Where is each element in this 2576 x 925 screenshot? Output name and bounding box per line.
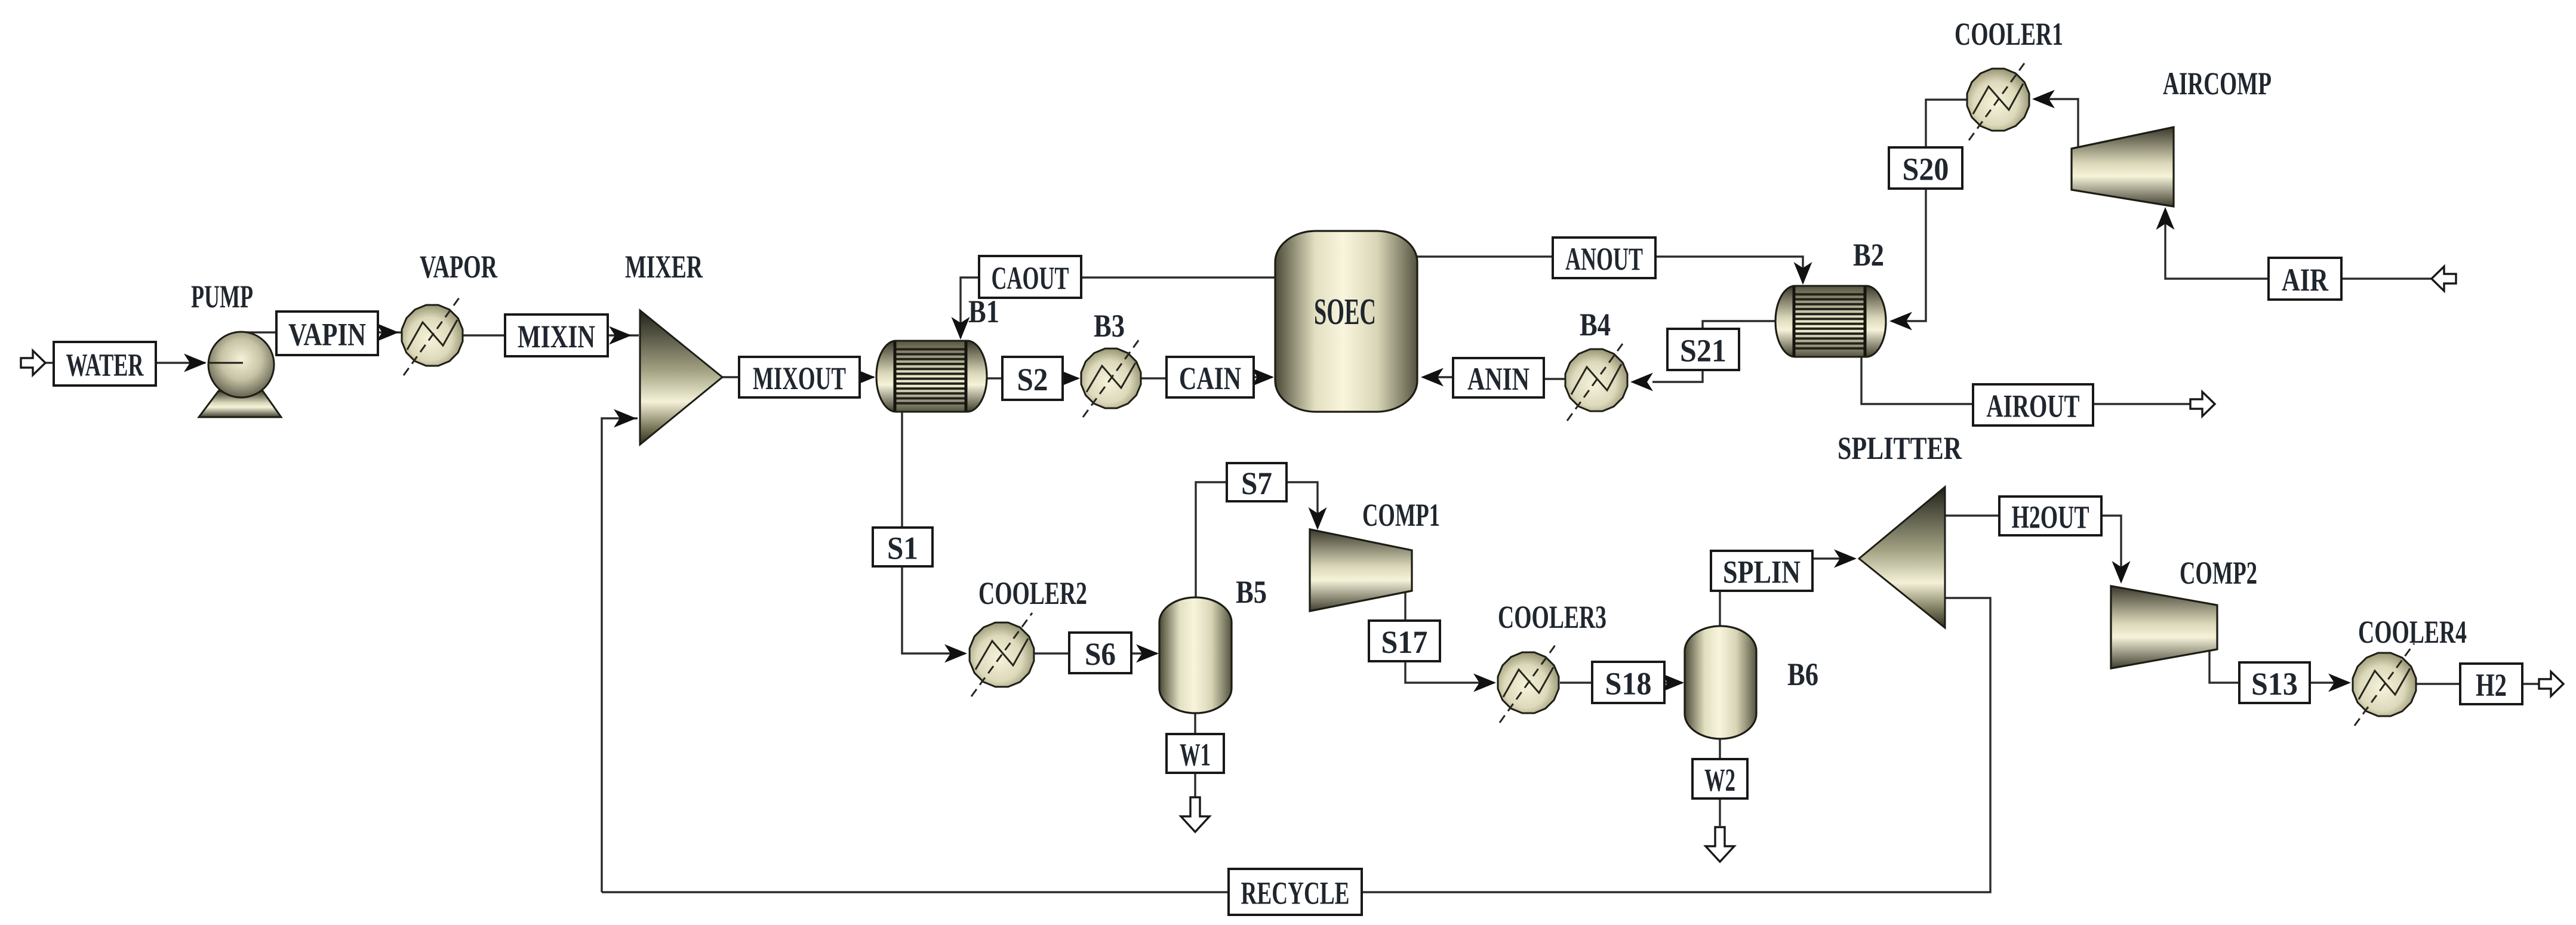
svg-text:S17: S17 [1381,624,1428,660]
stream label box ANIN [1453,358,1544,397]
wire WATER to PUMP [156,362,205,363]
svg-text:ANIN: ANIN [1467,361,1529,397]
svg-text:S20: S20 [1903,152,1949,187]
stream label box S7 [1227,463,1287,501]
svg-text:VAPIN: VAPIN [288,317,366,353]
stream label box WATER [54,342,156,386]
svg-text:COOLER1: COOLER1 [1955,16,2063,52]
stream label box S13 [2239,662,2310,703]
wire AIR to AIRCOMP [2165,209,2269,279]
arrowhead into COOLER3 [1473,674,1496,692]
svg-text:ANOUT: ANOUT [1565,241,1643,277]
svg-text:COOLER2: COOLER2 [978,575,1087,611]
wire CAOUT to B1 top [961,277,979,338]
stream label box SPLIN [1711,551,1812,591]
stream label box S2 [1002,357,1063,400]
reactor SOEC (vessel) [1275,231,1417,412]
pump PUMP base [199,391,281,417]
wire B1 bottom to S1 [901,412,903,528]
stream label box MIXOUT [739,357,860,397]
wire B1 to S2 [987,377,1002,379]
wire ANIN to SOEC [1423,376,1453,378]
svg-text:B3: B3 [1094,308,1125,344]
wire S13 to COOLER4 [2310,682,2349,683]
wire B2 to S21 [1703,321,1775,329]
stream label box AIR [2269,258,2341,300]
heater VAPOR (heater/cooler circle) [402,295,463,375]
stream label box MIXIN [505,314,608,356]
arrowhead into COOLER4 [2328,674,2351,692]
svg-text:B5: B5 [1236,574,1267,610]
stream label box CAIN [1167,357,1254,397]
wire H2OUT to COMP2 [2101,516,2121,581]
wire B5 bottom to W1 [1194,713,1196,734]
svg-text:B2: B2 [1853,237,1884,273]
stream label box ANOUT [1553,238,1655,278]
svg-text:W1: W1 [1180,737,1211,773]
wire B3 to CAIN [1141,377,1167,379]
wire AIROUT to product arrow [2093,403,2190,405]
wire ANOUT to B2 top [1655,257,1803,283]
arrowhead into MIXER inlet1 [609,326,632,345]
wire RECYCLE to riser [602,891,1229,893]
stream label box S1 [873,528,932,566]
wire S1 to COOLER2 [902,566,965,653]
splitter SPLITTER triangle [1859,487,1945,628]
arrowhead into B2 right [1889,312,1912,331]
wire COMP2 to S13 [2209,649,2239,683]
wire AIRCOMP to COOLER1 [2035,99,2078,149]
stream label box VAPIN [276,312,378,355]
wire B5 top to S7 [1196,482,1227,597]
svg-text:SOEC: SOEC [1314,292,1376,332]
svg-text:COOLER3: COOLER3 [1498,599,1606,635]
arrowhead into COOLER2 [944,645,967,663]
wire SOEC to ANOUT [1417,255,1553,257]
stream label box H2OUT [1999,497,2101,535]
open arrow product H2 [2539,672,2563,696]
wire RECYCLE riser to MIXER [602,418,638,892]
flash drum B6 (vessel) [1685,626,1756,739]
compressor COMP1 (compressor) [1310,529,1412,611]
svg-text:S6: S6 [1085,636,1116,672]
wire W2 to waste arrow [1719,798,1721,826]
svg-text:S13: S13 [2251,666,2298,702]
wire MIXOUT to B1 [860,376,874,378]
svg-text:COMP2: COMP2 [2180,555,2257,591]
stream label box S18 [1592,662,1664,703]
cooler COOLER1 (heater/cooler circle) [1967,59,2029,140]
svg-text:H2OUT: H2OUT [2012,499,2089,535]
stream label box CAOUT [979,256,1081,298]
svg-text:W2: W2 [1704,762,1735,798]
wire S20 to B2 right [1892,189,1926,321]
open arrow feed AIR (points left) [2432,267,2456,291]
svg-text:MIXIN: MIXIN [518,319,595,354]
svg-text:SPLITTER: SPLITTER [1838,430,1962,466]
heat exchanger B2 (shell-and-tube heat exchanger) [1775,286,1886,357]
arrowhead into COMP1 [1309,507,1327,530]
wire SOEC to CAOUT [1081,276,1275,278]
svg-text:SPLIN: SPLIN [1723,554,1801,590]
svg-text:B4: B4 [1580,307,1611,343]
arrowhead into COOLER1 [2032,90,2055,109]
svg-text:COMP1: COMP1 [1362,497,1440,533]
wire S7 to COMP1 [1287,482,1318,528]
wire S2 to B3 [1063,377,1078,379]
svg-text:S18: S18 [1605,666,1652,702]
wire WATER feed to WATER box [45,362,54,363]
mixer MIXER triangle [640,310,722,445]
svg-text:CAOUT: CAOUT [992,260,1069,296]
wire SPLITTER to RECYCLE [1362,598,1990,892]
wire PUMP to VAPIN [244,331,276,333]
compressor AIRCOMP (compressor) [2072,127,2174,206]
arrowhead into PUMP [184,354,207,372]
wire S17 to COOLER3 [1405,661,1494,683]
svg-text:AIROUT: AIROUT [1987,388,2080,424]
arrowhead into B4 [1630,373,1653,391]
flash drum B5 (vessel) [1159,597,1232,713]
open arrow feed WATER [21,351,45,375]
wire PUMP internal [209,362,243,363]
wire S18 to B6 [1664,682,1682,683]
svg-text:COOLER4: COOLER4 [2358,614,2467,650]
wire AIR arrow to AIR box [2341,277,2432,279]
arrowhead into B1 top [952,317,970,340]
cooler COOLER2 (heater/cooler circle) [970,613,1034,696]
arrowhead into B1 left [852,368,875,387]
stream label box W1 [1167,734,1224,773]
wire COMP1 to S17 [1404,591,1406,621]
stream label box S21 [1667,329,1739,370]
wire H2 to product arrow [2522,683,2539,684]
arrowhead into B5 [1136,645,1159,663]
open arrow waste W1 (down) [1181,797,1209,832]
svg-text:VAPOR: VAPOR [420,249,498,285]
wire B6 top to SPLIN [1719,591,1721,626]
wire B2 bottom to AIROUT [1861,357,1973,404]
wire CAIN to SOEC [1254,376,1272,378]
wire COOLER4 to H2 [2417,683,2460,684]
wire VAPOR to MIXIN [463,334,505,336]
svg-text:AIR: AIR [2282,262,2329,298]
stream label box S17 [1369,621,1440,661]
svg-text:S21: S21 [1680,333,1726,369]
arrowhead into SOEC cathode [1251,368,1274,387]
wire VAPIN to VAPOR [378,331,402,333]
arrowhead into SOEC anode [1421,368,1444,387]
stream label box H2 [2460,664,2522,704]
arrowhead into AIRCOMP [2156,207,2175,230]
svg-text:B6: B6 [1787,656,1818,692]
svg-text:AIRCOMP: AIRCOMP [2163,66,2272,101]
svg-text:WATER: WATER [66,347,144,383]
wire B4 to ANIN [1544,378,1565,380]
wire MIXIN to MIXER [608,334,639,336]
wire COOLER2 to S6 [1035,652,1069,654]
wire COOLER3 to S18 [1560,682,1592,683]
arrowhead into COMP2 [2112,561,2131,584]
wire COOLER1 to S20 [1926,100,1967,147]
heat exchanger B1 (shell-and-tube heat exchanger) [876,341,987,412]
svg-text:H2: H2 [2476,667,2507,703]
svg-text:MIXER: MIXER [625,249,703,285]
wire S6 to B5 [1131,652,1157,654]
svg-text:MIXOUT: MIXOUT [753,360,846,396]
stream label box S6 [1069,633,1131,673]
heater B4 (heater/cooler circle) [1565,340,1627,421]
open arrow product AIROUT [2190,392,2215,417]
svg-text:S7: S7 [1241,465,1272,501]
arrowhead into MIXER inlet2 [614,409,636,428]
svg-text:S1: S1 [887,531,918,566]
arrowhead into B6 [1661,674,1684,692]
arrowhead into B2 top [1794,262,1812,285]
cooler COOLER4 (heater/cooler circle) [2353,643,2416,726]
stream label box S20 [1889,147,1962,189]
wire SPLITTER to H2OUT [1945,514,1999,516]
stream label box W2 [1692,759,1747,798]
compressor COMP2 (compressor) [2111,586,2217,668]
wire S21 to B4 [1652,370,1703,382]
wire W1 to waste arrow [1194,773,1196,797]
stream label box RECYCLE [1229,869,1362,915]
svg-text:RECYCLE: RECYCLE [1241,875,1350,911]
cooler COOLER3 (heater/cooler circle) [1498,643,1559,723]
arrowhead into B3 [1057,369,1080,388]
pump PUMP sphere [208,332,274,397]
open arrow waste W2 (down) [1706,827,1734,862]
svg-text:S2: S2 [1017,362,1048,397]
wire SPLIN to SPLITTER [1812,557,1854,559]
heater B3 (heater/cooler circle) [1081,340,1141,417]
svg-text:B1: B1 [968,294,999,329]
wire MIXER to MIXOUT [722,376,739,378]
arrowhead into SPLITTER [1834,550,1857,568]
wire B6 bottom to W2 [1719,739,1721,759]
stream label box AIROUT [1973,384,2093,425]
svg-text:CAIN: CAIN [1179,360,1241,396]
arrowhead into VAPOR [376,323,399,342]
svg-text:PUMP: PUMP [191,279,253,314]
